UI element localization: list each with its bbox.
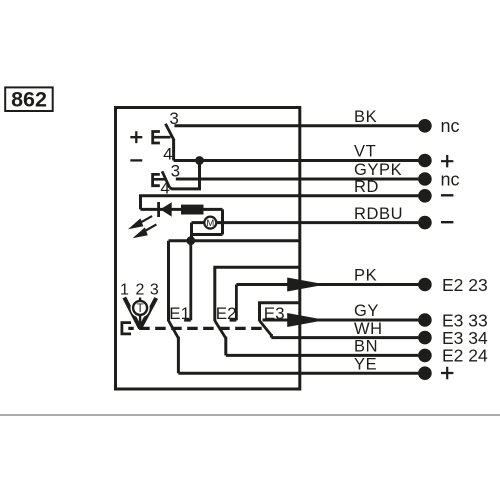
label − (switch S1) [130, 159, 142, 161]
svg-text:GY: GY [354, 302, 379, 320]
wire PK from E2 fixed contact [236, 283, 418, 286]
svg-text:PK: PK [354, 267, 377, 285]
device frame [116, 108, 300, 390]
wire GYPK [176, 178, 419, 181]
svg-text:862: 862 [11, 88, 47, 112]
terminal VT [418, 154, 432, 168]
motor M1 [204, 217, 216, 229]
wire E2 fixed contact [230, 285, 237, 321]
wire resistor to motor loop [221, 209, 224, 234]
terminal YE [418, 366, 432, 380]
dashed actuation line [128, 327, 262, 330]
terminal RDBU [418, 216, 432, 230]
wire S2 pin4 elbow to VT node [170, 161, 200, 189]
signal arrow GY [287, 313, 325, 327]
svg-text:YE: YE [354, 355, 377, 373]
signal arrow PK [287, 278, 325, 292]
actuator stem S1 [154, 136, 171, 139]
wire E1 output to YE [177, 337, 180, 374]
cam center stub lower [139, 314, 141, 328]
terminal GY [418, 313, 432, 327]
svg-text:GYPK: GYPK [354, 161, 402, 179]
wire BN [226, 354, 419, 357]
svg-text:1: 1 [120, 281, 129, 298]
svg-text:T: T [137, 303, 144, 315]
LED D1 cathode bar [157, 202, 160, 217]
switch E2 blade [215, 321, 226, 339]
wire E3 feed from frame [260, 303, 300, 321]
junction node A [186, 236, 195, 245]
svg-text:RD: RD [354, 178, 379, 196]
separator line [0, 414, 500, 416]
svg-text:E2 23: E2 23 [442, 275, 488, 295]
svg-text:E2: E2 [216, 304, 237, 323]
svg-text:VT: VT [354, 143, 376, 161]
terminal BN [418, 349, 432, 363]
terminal BK [418, 119, 432, 133]
wire LED row [141, 208, 223, 211]
junction VT node [195, 156, 204, 165]
thermal trigger T circle [133, 301, 147, 315]
switch S2 blade [162, 171, 170, 187]
actuator bracket (trip lever) [122, 323, 131, 334]
terminal RD [418, 189, 432, 203]
wire WH [271, 336, 418, 339]
LED emission arrow 2 [133, 224, 157, 238]
terminal WH [418, 331, 432, 345]
svg-text:E1: E1 [169, 304, 190, 323]
LED D1 triangle [160, 202, 172, 216]
svg-text:BK: BK [354, 108, 377, 126]
svg-text:2: 2 [136, 281, 145, 298]
motor loop bottom wire [192, 233, 223, 236]
label box 862 [5, 87, 53, 111]
svg-text:nc: nc [441, 169, 460, 189]
wire E2 feed from frame [215, 267, 300, 321]
wire RD [141, 196, 419, 210]
LED emission arrow 1 [128, 216, 152, 229]
terminal label − (RDBU) [441, 221, 453, 223]
terminal GYPK [418, 172, 432, 186]
svg-text:nc: nc [441, 116, 460, 136]
switch E1 blade [169, 321, 179, 339]
motor loop left wire [190, 223, 193, 241]
wire RDBU [217, 221, 419, 224]
cam halo (white separation) [131, 298, 150, 317]
terminal label + (YE) [441, 367, 453, 379]
wire E1 fixed contact [184, 241, 191, 321]
svg-text:BN: BN [354, 338, 378, 356]
terminal PK [418, 278, 432, 292]
cam V arm left [124, 298, 140, 329]
wire E1 input [167, 241, 170, 321]
cam center stub upper [139, 298, 141, 302]
svg-text:RDBU: RDBU [354, 205, 403, 223]
svg-text:E2 24: E2 24 [442, 346, 488, 366]
svg-text:M: M [206, 218, 214, 229]
terminal label − (RD) [441, 194, 453, 196]
svg-text:3: 3 [150, 281, 159, 298]
switch E3 blade [260, 321, 272, 336]
pushbutton actuator bracket S2 [153, 174, 160, 185]
resistor R1 [181, 205, 204, 215]
wire BK [174, 124, 418, 127]
wire E3 fixed contact / GY [263, 319, 419, 322]
wire YE [178, 372, 418, 375]
wire node A to frame [169, 239, 300, 242]
wire E3 output to WH [270, 334, 273, 338]
wire motor row left [192, 221, 205, 224]
terminal label + (VT) [441, 155, 453, 167]
wire S1 pin4 to VT [172, 139, 175, 161]
actuator stem S2 [154, 178, 166, 181]
pushbutton actuator bracket S1 [153, 132, 160, 144]
label + (switch S1) [130, 131, 142, 143]
wire E2 output to BN [224, 337, 227, 356]
switch S1 blade [166, 124, 175, 140]
svg-text:WH: WH [354, 320, 383, 338]
wire VT [174, 159, 419, 162]
cam V arm right [140, 298, 156, 328]
